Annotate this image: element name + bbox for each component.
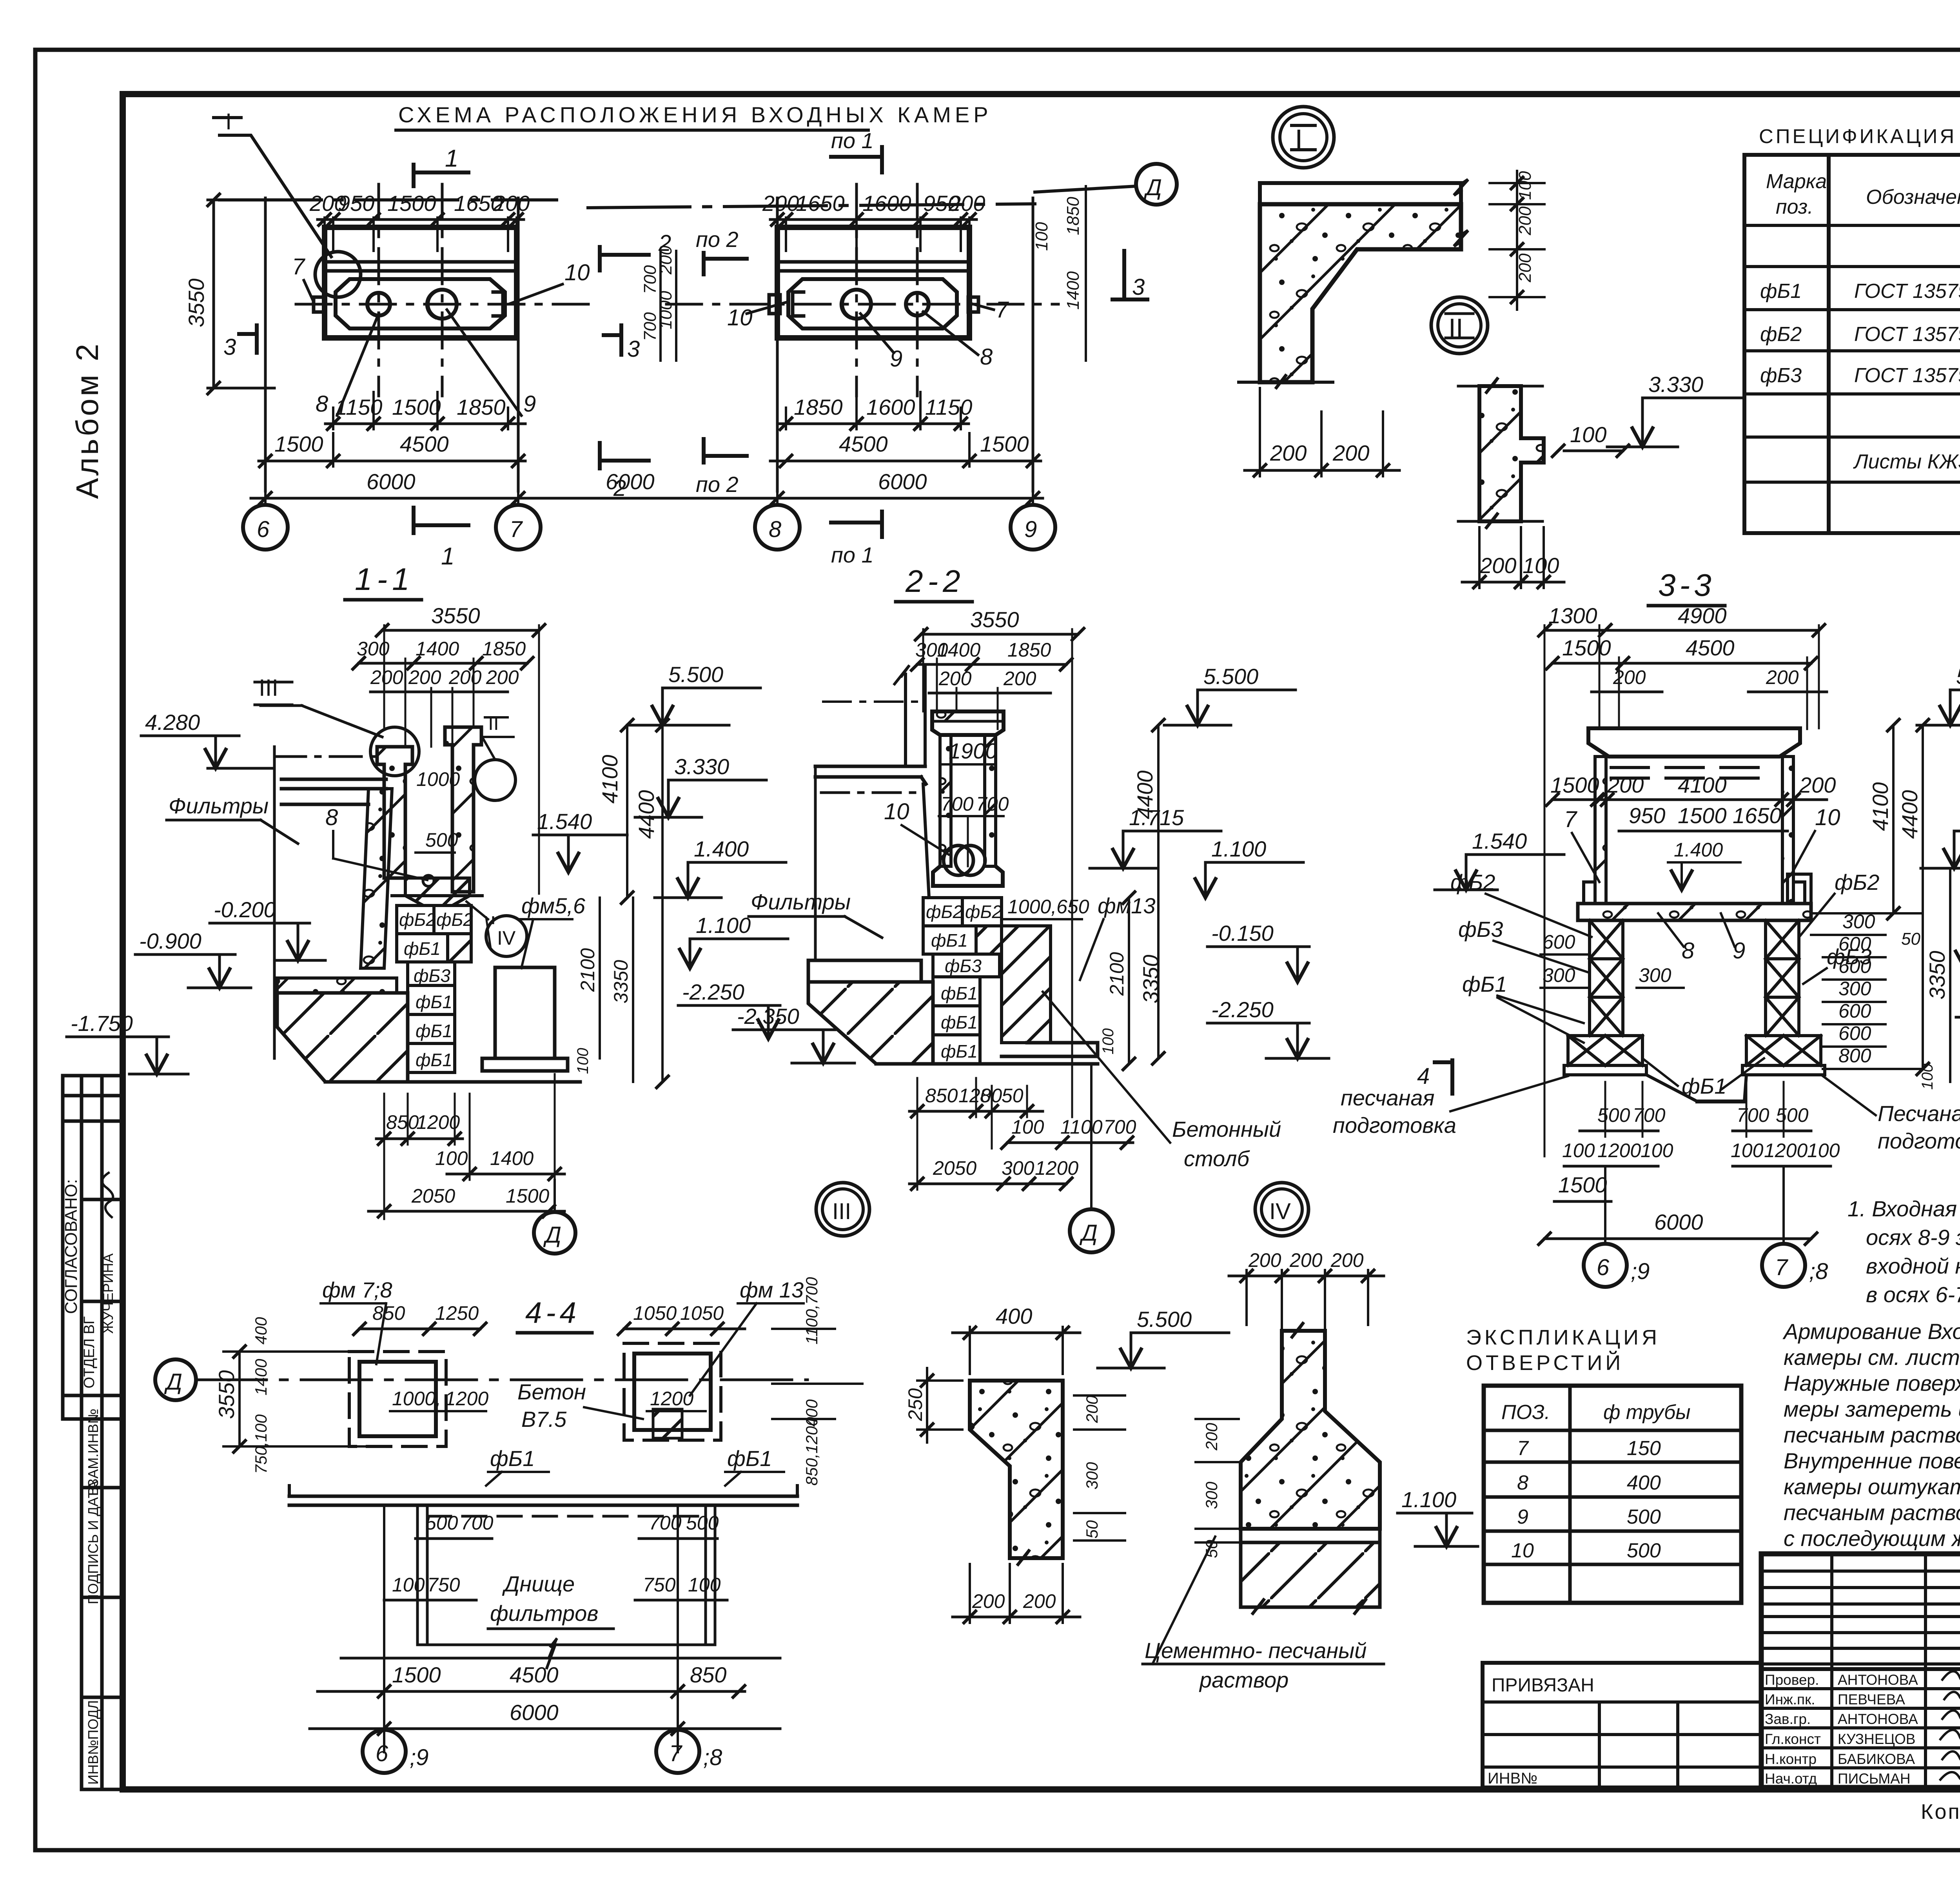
svg-text:1200: 1200 [416, 1111, 460, 1133]
svg-text:400: 400 [252, 1317, 270, 1345]
detail I circle callout [315, 252, 361, 297]
filter tank left: top slab double lines [281, 779, 386, 804]
svg-text:3-3: 3-3 [1658, 568, 1715, 602]
svg-text:600: 600 [1838, 1022, 1871, 1044]
svg-text:1650: 1650 [1733, 803, 1782, 828]
svg-text:1250: 1250 [435, 1302, 479, 1324]
concrete column pedestal фм5,6 [495, 967, 555, 1058]
bottom dims [786, 392, 961, 429]
grid lines 6,7 [265, 198, 518, 491]
svg-text:СОГЛАСОВАНО:: СОГЛАСОВАНО: [62, 1179, 81, 1314]
svg-text:фБ1: фБ1 [490, 1446, 535, 1471]
svg-text:4500: 4500 [1686, 635, 1735, 660]
svg-text:850: 850 [690, 1662, 726, 1687]
filter tank left of 2-2 [815, 766, 926, 784]
svg-text:200: 200 [938, 668, 972, 690]
svg-text:фБ1: фБ1 [941, 983, 978, 1003]
svg-text:8: 8 [1682, 938, 1694, 964]
svg-text:300: 300 [1543, 964, 1575, 986]
svg-text:1400: 1400 [490, 1147, 534, 1169]
svg-text:9: 9 [1517, 1506, 1528, 1528]
svg-text:ИНВ№: ИНВ№ [1488, 1770, 1537, 1787]
svg-text:100: 100 [1011, 1116, 1044, 1138]
svg-text:100: 100 [1032, 222, 1051, 251]
section mark 1 top [414, 165, 468, 186]
svg-text:IV: IV [1269, 1199, 1291, 1224]
svg-text:3550: 3550 [970, 607, 1019, 632]
svg-text:фБ2: фБ2 [926, 902, 963, 922]
bottom dims 200 100 [1479, 527, 1544, 588]
svg-text:ф трубы: ф трубы [1603, 1401, 1690, 1424]
svg-text:850,1200: 850,1200 [802, 1417, 821, 1486]
svg-text:ЖУЧЕРИНА: ЖУЧЕРИНА [100, 1254, 116, 1334]
svg-text:50: 50 [1002, 1085, 1024, 1107]
svg-text:АНТОНОВА: АНТОНОВА [1838, 1672, 1918, 1688]
svg-text:200: 200 [1515, 206, 1535, 236]
svg-text:IV: IV [497, 927, 516, 949]
svg-text:1850: 1850 [457, 395, 506, 419]
svg-text:200: 200 [1332, 441, 1369, 465]
svg-text:850: 850 [386, 1111, 419, 1133]
svg-text:Наружные поверхности ка-: Наружные поверхности ка- [1784, 1371, 1960, 1395]
chamber outer wall rect [325, 227, 517, 338]
svg-text:1.100: 1.100 [1401, 1487, 1456, 1512]
svg-text:песчаная: песчаная [1341, 1085, 1434, 1110]
svg-text:III: III [259, 675, 278, 701]
svg-text:200: 200 [370, 666, 403, 688]
top axis dashdot row [220, 198, 557, 201]
svg-text:поз.: поз. [1776, 196, 1813, 218]
svg-text:ИНВ№ПОДЛ: ИНВ№ПОДЛ [85, 1700, 101, 1785]
signatures squiggles [1940, 1668, 1960, 1781]
svg-text:;9: ;9 [1631, 1259, 1650, 1284]
svg-text:9: 9 [1024, 517, 1037, 542]
top slab [1588, 728, 1800, 757]
svg-text:2050: 2050 [933, 1157, 976, 1179]
III bubble left below [816, 1183, 869, 1236]
svg-text:200: 200 [1613, 666, 1646, 688]
svg-text:200: 200 [1607, 773, 1644, 797]
svg-text:фБ1: фБ1 [941, 1041, 978, 1062]
svg-text:4: 4 [1417, 1063, 1430, 1089]
svg-text:Альбом 2: Альбом 2 [70, 341, 105, 499]
svg-text:Фильтры: Фильтры [169, 793, 269, 818]
svg-text:Инж.пк.: Инж.пк. [1765, 1691, 1815, 1707]
svg-text:1: 1 [441, 543, 454, 570]
svg-text:фБ3: фБ3 [1760, 364, 1802, 387]
svg-text:200: 200 [408, 666, 441, 688]
svg-text:4100: 4100 [1868, 782, 1893, 831]
svg-text:фм5,6: фм5,6 [521, 893, 586, 918]
svg-text:200: 200 [1799, 773, 1836, 797]
svg-text:1850: 1850 [1063, 197, 1083, 235]
svg-text:10: 10 [564, 260, 590, 285]
svg-text:6: 6 [257, 517, 270, 542]
svg-text:фм13: фм13 [1098, 893, 1155, 918]
svg-text:ОТВЕРСТИЙ: ОТВЕРСТИЙ [1466, 1351, 1624, 1375]
svg-text:200: 200 [1248, 1249, 1281, 1271]
svg-text:Днище: Днище [502, 1571, 575, 1596]
svg-text:700: 700 [461, 1512, 494, 1534]
svg-text:7: 7 [1517, 1437, 1529, 1460]
svg-text:фБ2: фБ2 [1760, 323, 1802, 346]
svg-text:В7.5: В7.5 [521, 1407, 567, 1432]
svg-text:200: 200 [1479, 553, 1516, 578]
pipe circle 9 [428, 290, 457, 319]
svg-text:700: 700 [1633, 1104, 1666, 1126]
svg-text:6000: 6000 [1654, 1210, 1703, 1234]
svg-text:СПЕЦИФИКАЦИЯ К СХЕМЕ РАСПОЛО: СПЕЦИФИКАЦИЯ К СХЕМЕ РАСПОЛОЖЕНИЯ ВХОДНЫ… [1759, 125, 1960, 147]
svg-text:6: 6 [1597, 1255, 1610, 1280]
svg-text:4500: 4500 [510, 1662, 559, 1687]
svg-text:500: 500 [425, 1512, 458, 1534]
svg-text:100: 100 [1919, 1063, 1936, 1090]
svg-text:Фильтры: Фильтры [751, 889, 851, 914]
extension verticals [384, 625, 539, 894]
бетонный столб hatched column [1002, 926, 1051, 1043]
svg-text:5.500: 5.500 [668, 662, 723, 687]
bottom dims [384, 1094, 455, 1219]
svg-text:по 2: по 2 [696, 472, 739, 497]
svg-text:1400: 1400 [252, 1359, 270, 1395]
top dims [1544, 629, 1819, 632]
svg-text:9: 9 [523, 391, 536, 417]
svg-text:1600: 1600 [866, 395, 915, 419]
collar below [933, 866, 1003, 886]
svg-text:6000: 6000 [367, 469, 416, 494]
svg-text:500: 500 [425, 829, 458, 851]
svg-text:1. Входная камера в: 1. Входная камера в [1847, 1196, 1960, 1221]
svg-text:Д: Д [164, 1369, 182, 1395]
vertical dims right [1129, 725, 1158, 1064]
svg-text:-0.200: -0.200 [214, 897, 276, 922]
svg-text:Гл.конст: Гл.конст [1765, 1731, 1821, 1747]
svg-text:4100: 4100 [597, 755, 622, 804]
right flange pos10 [493, 292, 503, 316]
svg-text:700: 700 [641, 265, 660, 294]
bottom dims [917, 1078, 1027, 1190]
svg-text:5.500: 5.500 [1137, 1307, 1192, 1332]
left flange pos10 [793, 292, 804, 316]
svg-text:Д: Д [1079, 1220, 1098, 1246]
svg-text:6000: 6000 [878, 469, 927, 494]
svg-text:8: 8 [980, 1085, 991, 1107]
svg-text:300: 300 [1002, 1157, 1034, 1179]
svg-text:200: 200 [486, 666, 519, 688]
svg-text:500: 500 [1627, 1506, 1661, 1528]
screed band [1241, 1529, 1380, 1542]
svg-text:4100: 4100 [1678, 773, 1727, 797]
svg-text:5.500: 5.500 [1203, 664, 1258, 689]
svg-text:600: 600 [1838, 933, 1871, 955]
svg-text:250: 250 [904, 1388, 926, 1421]
svg-text:1050: 1050 [680, 1302, 724, 1324]
svg-text:-2.250: -2.250 [682, 980, 744, 1004]
svg-text:1200: 1200 [1764, 1140, 1808, 1161]
IV callout [486, 916, 527, 956]
block stack 2-2 [923, 898, 1002, 1064]
svg-text:7: 7 [1775, 1255, 1789, 1280]
svg-text:400: 400 [1627, 1472, 1661, 1494]
svg-text:10: 10 [1511, 1539, 1534, 1562]
bottom dims row1: 1150 1500 1850 [333, 392, 508, 429]
svg-text:200: 200 [1330, 1249, 1364, 1271]
svg-text:200: 200 [948, 191, 985, 216]
svg-text:200: 200 [972, 1590, 1005, 1612]
svg-text:200: 200 [1766, 666, 1799, 688]
svg-text:-0.900: -0.900 [139, 929, 201, 953]
section 2 marks right of plan1 [600, 247, 649, 270]
right vertical dims [627, 725, 662, 1082]
svg-text:500: 500 [1776, 1104, 1809, 1126]
dim 100 [1564, 450, 1623, 452]
svg-text:8: 8 [1517, 1472, 1528, 1494]
svg-text:3: 3 [223, 334, 236, 360]
svg-text:300: 300 [1838, 978, 1871, 1000]
II callout right wall [475, 760, 515, 800]
walls [1595, 757, 1606, 904]
svg-text:1.100: 1.100 [696, 913, 751, 938]
svg-text:200: 200 [1515, 253, 1535, 283]
svg-text:1600: 1600 [862, 191, 911, 216]
svg-text:раствор: раствор [1199, 1668, 1289, 1692]
svg-text:фБ1: фБ1 [1682, 1074, 1726, 1098]
Д axis bubbles [155, 1359, 196, 1400]
svg-text:фБ2: фБ2 [436, 909, 473, 930]
svg-text:1100,700: 1100,700 [802, 1277, 821, 1345]
column + base [1241, 1331, 1380, 1529]
svg-text:фБ1: фБ1 [416, 1050, 452, 1070]
right small dims 200 300 50 [1074, 1395, 1125, 1541]
svg-text:III: III [832, 1199, 851, 1224]
svg-text:750: 750 [427, 1574, 460, 1596]
svg-text:10: 10 [727, 305, 753, 330]
right step dims 300 50 600 600 300 600 600 800 [1811, 913, 1921, 1069]
svg-text:1200: 1200 [1035, 1157, 1078, 1179]
svg-text:Бетонный: Бетонный [1172, 1117, 1281, 1141]
svg-text:200: 200 [1023, 1590, 1056, 1612]
svg-text:1.540: 1.540 [1472, 829, 1527, 853]
left rotated dims 200 1000 200 / 700 700 [661, 251, 676, 361]
svg-text:Армирование Входной: Армирование Входной [1782, 1319, 1960, 1344]
svg-text:6: 6 [376, 1741, 388, 1766]
svg-text:ПЕВЧЕВА: ПЕВЧЕВА [1838, 1691, 1905, 1707]
svg-text:7: 7 [292, 254, 306, 279]
svg-text:3550: 3550 [431, 603, 480, 628]
corner section: screed strip [1260, 183, 1461, 204]
svg-text:фБ3: фБ3 [1458, 917, 1503, 942]
svg-text:Провер.: Провер. [1765, 1672, 1819, 1688]
svg-text:ГОСТ 13579-78: ГОСТ 13579-78 [1854, 364, 1960, 387]
svg-text:песчаным раствором состава 1:2: песчаным раствором состава 1:2 [1784, 1500, 1960, 1525]
svg-text:1.100: 1.100 [1211, 836, 1266, 861]
svg-text:1400: 1400 [1063, 271, 1083, 310]
svg-text:фильтров: фильтров [490, 1601, 599, 1626]
top dim 400 [970, 1327, 1063, 1374]
right vertical dim 100 200 200 [1490, 171, 1544, 310]
svg-text:камеры см. лист КЖ-39.: камеры см. лист КЖ-39. [1784, 1345, 1960, 1370]
svg-text:7: 7 [996, 297, 1009, 323]
svg-text:фм 13: фм 13 [740, 1277, 804, 1302]
svg-text:фБ1: фБ1 [1462, 972, 1507, 996]
wedge shape [970, 1381, 1063, 1558]
Д bubble below [554, 1180, 556, 1212]
svg-text:1650: 1650 [796, 191, 845, 216]
svg-text:100: 100 [574, 1048, 592, 1074]
svg-text:Марка,: Марка, [1766, 170, 1833, 193]
svg-text:300: 300 [1083, 1462, 1101, 1490]
svg-text:;8: ;8 [703, 1745, 722, 1770]
svg-text:3350: 3350 [610, 960, 632, 1003]
svg-text:Цементно- песчаный: Цементно- песчаный [1145, 1638, 1367, 1663]
concrete corner [1260, 204, 1461, 382]
svg-text:750,100: 750,100 [252, 1414, 270, 1474]
ground line under wall [1239, 381, 1333, 384]
wall slice with nib [1479, 386, 1544, 521]
horizontal axis [666, 303, 1058, 306]
svg-text:;8: ;8 [1809, 1259, 1828, 1284]
svg-text:100: 100 [392, 1574, 425, 1596]
svg-text:4400: 4400 [1897, 790, 1922, 839]
dims 1500 4500 850 [318, 1690, 745, 1693]
svg-text:100: 100 [1731, 1140, 1764, 1161]
svg-text:100: 100 [1562, 1140, 1595, 1161]
svg-text:4500: 4500 [400, 432, 449, 456]
svg-text:фБ2: фБ2 [1835, 870, 1879, 895]
svg-text:ПРИВЯЗАН: ПРИВЯЗАН [1492, 1675, 1594, 1696]
left stamp: upper approval table [63, 1076, 123, 1419]
svg-text:7: 7 [1564, 807, 1578, 832]
svg-text:ОТДЕЛ ВГ: ОТДЕЛ ВГ [81, 1316, 98, 1388]
svg-text:Листы КЖ38;39: Листы КЖ38;39 [1853, 450, 1960, 473]
svg-text:фБ2: фБ2 [965, 902, 1002, 922]
pipe circle 8 [367, 293, 390, 316]
svg-text:Копировал: Коршунова: Копировал: Коршунова [1921, 1800, 1960, 1824]
bottom dims 200 200 [970, 1564, 1063, 1623]
grid bubbles [1605, 1166, 1784, 1245]
svg-text:3: 3 [1132, 274, 1145, 300]
svg-text:4500: 4500 [839, 432, 888, 456]
svg-text:8: 8 [316, 391, 328, 417]
svg-text:подготовка: подготовка [1333, 1113, 1456, 1138]
bottom dims [1605, 1082, 1784, 1137]
chimney cap [932, 711, 1004, 735]
svg-text:9: 9 [1733, 938, 1745, 964]
III callout [370, 727, 419, 776]
svg-text:1-1: 1-1 [355, 562, 414, 597]
left flange pos7 [314, 297, 324, 312]
IV bubble right [1255, 1183, 1308, 1236]
Д bubble [1090, 1064, 1093, 1209]
svg-text:Д: Д [543, 1222, 561, 1248]
svg-text:200: 200 [1289, 1249, 1323, 1271]
svg-text:1200: 1200 [650, 1388, 693, 1410]
привязан table [1483, 1663, 1761, 1787]
svg-text:входной камере: входной камере [1866, 1254, 1960, 1278]
svg-text:100: 100 [1523, 553, 1559, 578]
svg-text:6000: 6000 [606, 469, 655, 494]
left wall [377, 747, 412, 878]
svg-text:по 2: по 2 [696, 227, 739, 252]
svg-text:камеры оштукатурить цементно-: камеры оштукатурить цементно- [1784, 1474, 1960, 1499]
svg-text:950: 950 [1629, 803, 1665, 828]
bottom base line [325, 1080, 580, 1084]
svg-text:1000,: 1000, [392, 1388, 441, 1410]
svg-text:Д: Д [1143, 175, 1162, 200]
svg-text:1500: 1500 [980, 432, 1029, 456]
svg-text:200: 200 [1083, 1395, 1101, 1423]
bottom dims row3: 6000 [265, 472, 518, 504]
svg-text:10: 10 [1815, 805, 1840, 830]
X-block columns [1564, 920, 1825, 1075]
svg-text:2-2: 2-2 [905, 564, 965, 599]
svg-text:3350: 3350 [1138, 954, 1163, 1003]
svg-text:300: 300 [1842, 911, 1875, 933]
svg-text:50: 50 [1901, 929, 1920, 949]
svg-text:100: 100 [688, 1574, 721, 1596]
section marks 3 left [239, 325, 257, 353]
svg-text:ЭКСПЛИКАЦИЯ: ЭКСПЛИКАЦИЯ [1466, 1326, 1660, 1349]
svg-text:фм 7;8: фм 7;8 [322, 1277, 392, 1302]
top dims [921, 633, 1078, 636]
svg-text:фБ1: фБ1 [1760, 280, 1802, 303]
vertical dims left [223, 1352, 365, 1446]
svg-text:1.540: 1.540 [537, 809, 592, 834]
soil hatch below [1241, 1542, 1380, 1607]
right flange pos7 [968, 297, 978, 312]
svg-text:7: 7 [510, 517, 523, 542]
svg-text:200: 200 [1270, 441, 1307, 465]
svg-text:1500: 1500 [274, 432, 323, 456]
svg-text:фБ1: фБ1 [416, 992, 452, 1012]
svg-text:850: 850 [925, 1085, 958, 1107]
svg-text:ГОСТ 13579-78: ГОСТ 13579-78 [1854, 323, 1960, 346]
svg-text:100: 100 [1641, 1140, 1673, 1161]
svg-text:1150: 1150 [925, 395, 972, 419]
bottom dims row2: 1500 4500 [265, 433, 518, 466]
svg-text:4.280: 4.280 [145, 710, 200, 735]
section marks 3 right plan1 [604, 325, 621, 355]
svg-text:100: 100 [1515, 171, 1535, 200]
по2 marks left [704, 253, 747, 274]
dashdot stub top left [274, 755, 378, 758]
svg-text:фБ1: фБ1 [941, 1012, 978, 1032]
svg-text:подготовка: подготовка [1878, 1129, 1960, 1153]
svg-text:2100: 2100 [577, 948, 599, 992]
chimney shaft [940, 735, 951, 866]
left hole фм7,8 [349, 1352, 446, 1446]
svg-text:6000: 6000 [510, 1700, 559, 1725]
svg-text:;9: ;9 [410, 1745, 428, 1770]
soil hatch left [277, 993, 408, 1082]
top double wall lines [328, 262, 514, 271]
svg-text:500: 500 [1627, 1539, 1661, 1562]
break marks [1454, 180, 1468, 246]
svg-text:4900: 4900 [1678, 603, 1727, 628]
svg-text:100: 100 [1570, 422, 1606, 447]
svg-text:500: 500 [686, 1512, 719, 1534]
svg-text:950: 950 [338, 191, 374, 216]
top dims 200 200 200 [1247, 1270, 1368, 1329]
svg-text:1500: 1500 [506, 1185, 549, 1207]
svg-text:4400: 4400 [634, 790, 659, 839]
3550 vertical dim [208, 200, 321, 388]
svg-text:1400: 1400 [416, 638, 459, 660]
svg-text:фБ1: фБ1 [404, 938, 441, 959]
svg-text:100: 100 [1100, 1028, 1117, 1054]
svg-text:1150: 1150 [335, 395, 382, 419]
horizontal axis [296, 303, 600, 306]
